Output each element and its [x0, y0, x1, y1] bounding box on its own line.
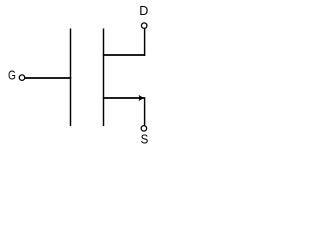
svg-text:D: D — [139, 4, 148, 18]
svg-text:G: G — [8, 69, 16, 83]
svg-text:S: S — [141, 132, 149, 146]
